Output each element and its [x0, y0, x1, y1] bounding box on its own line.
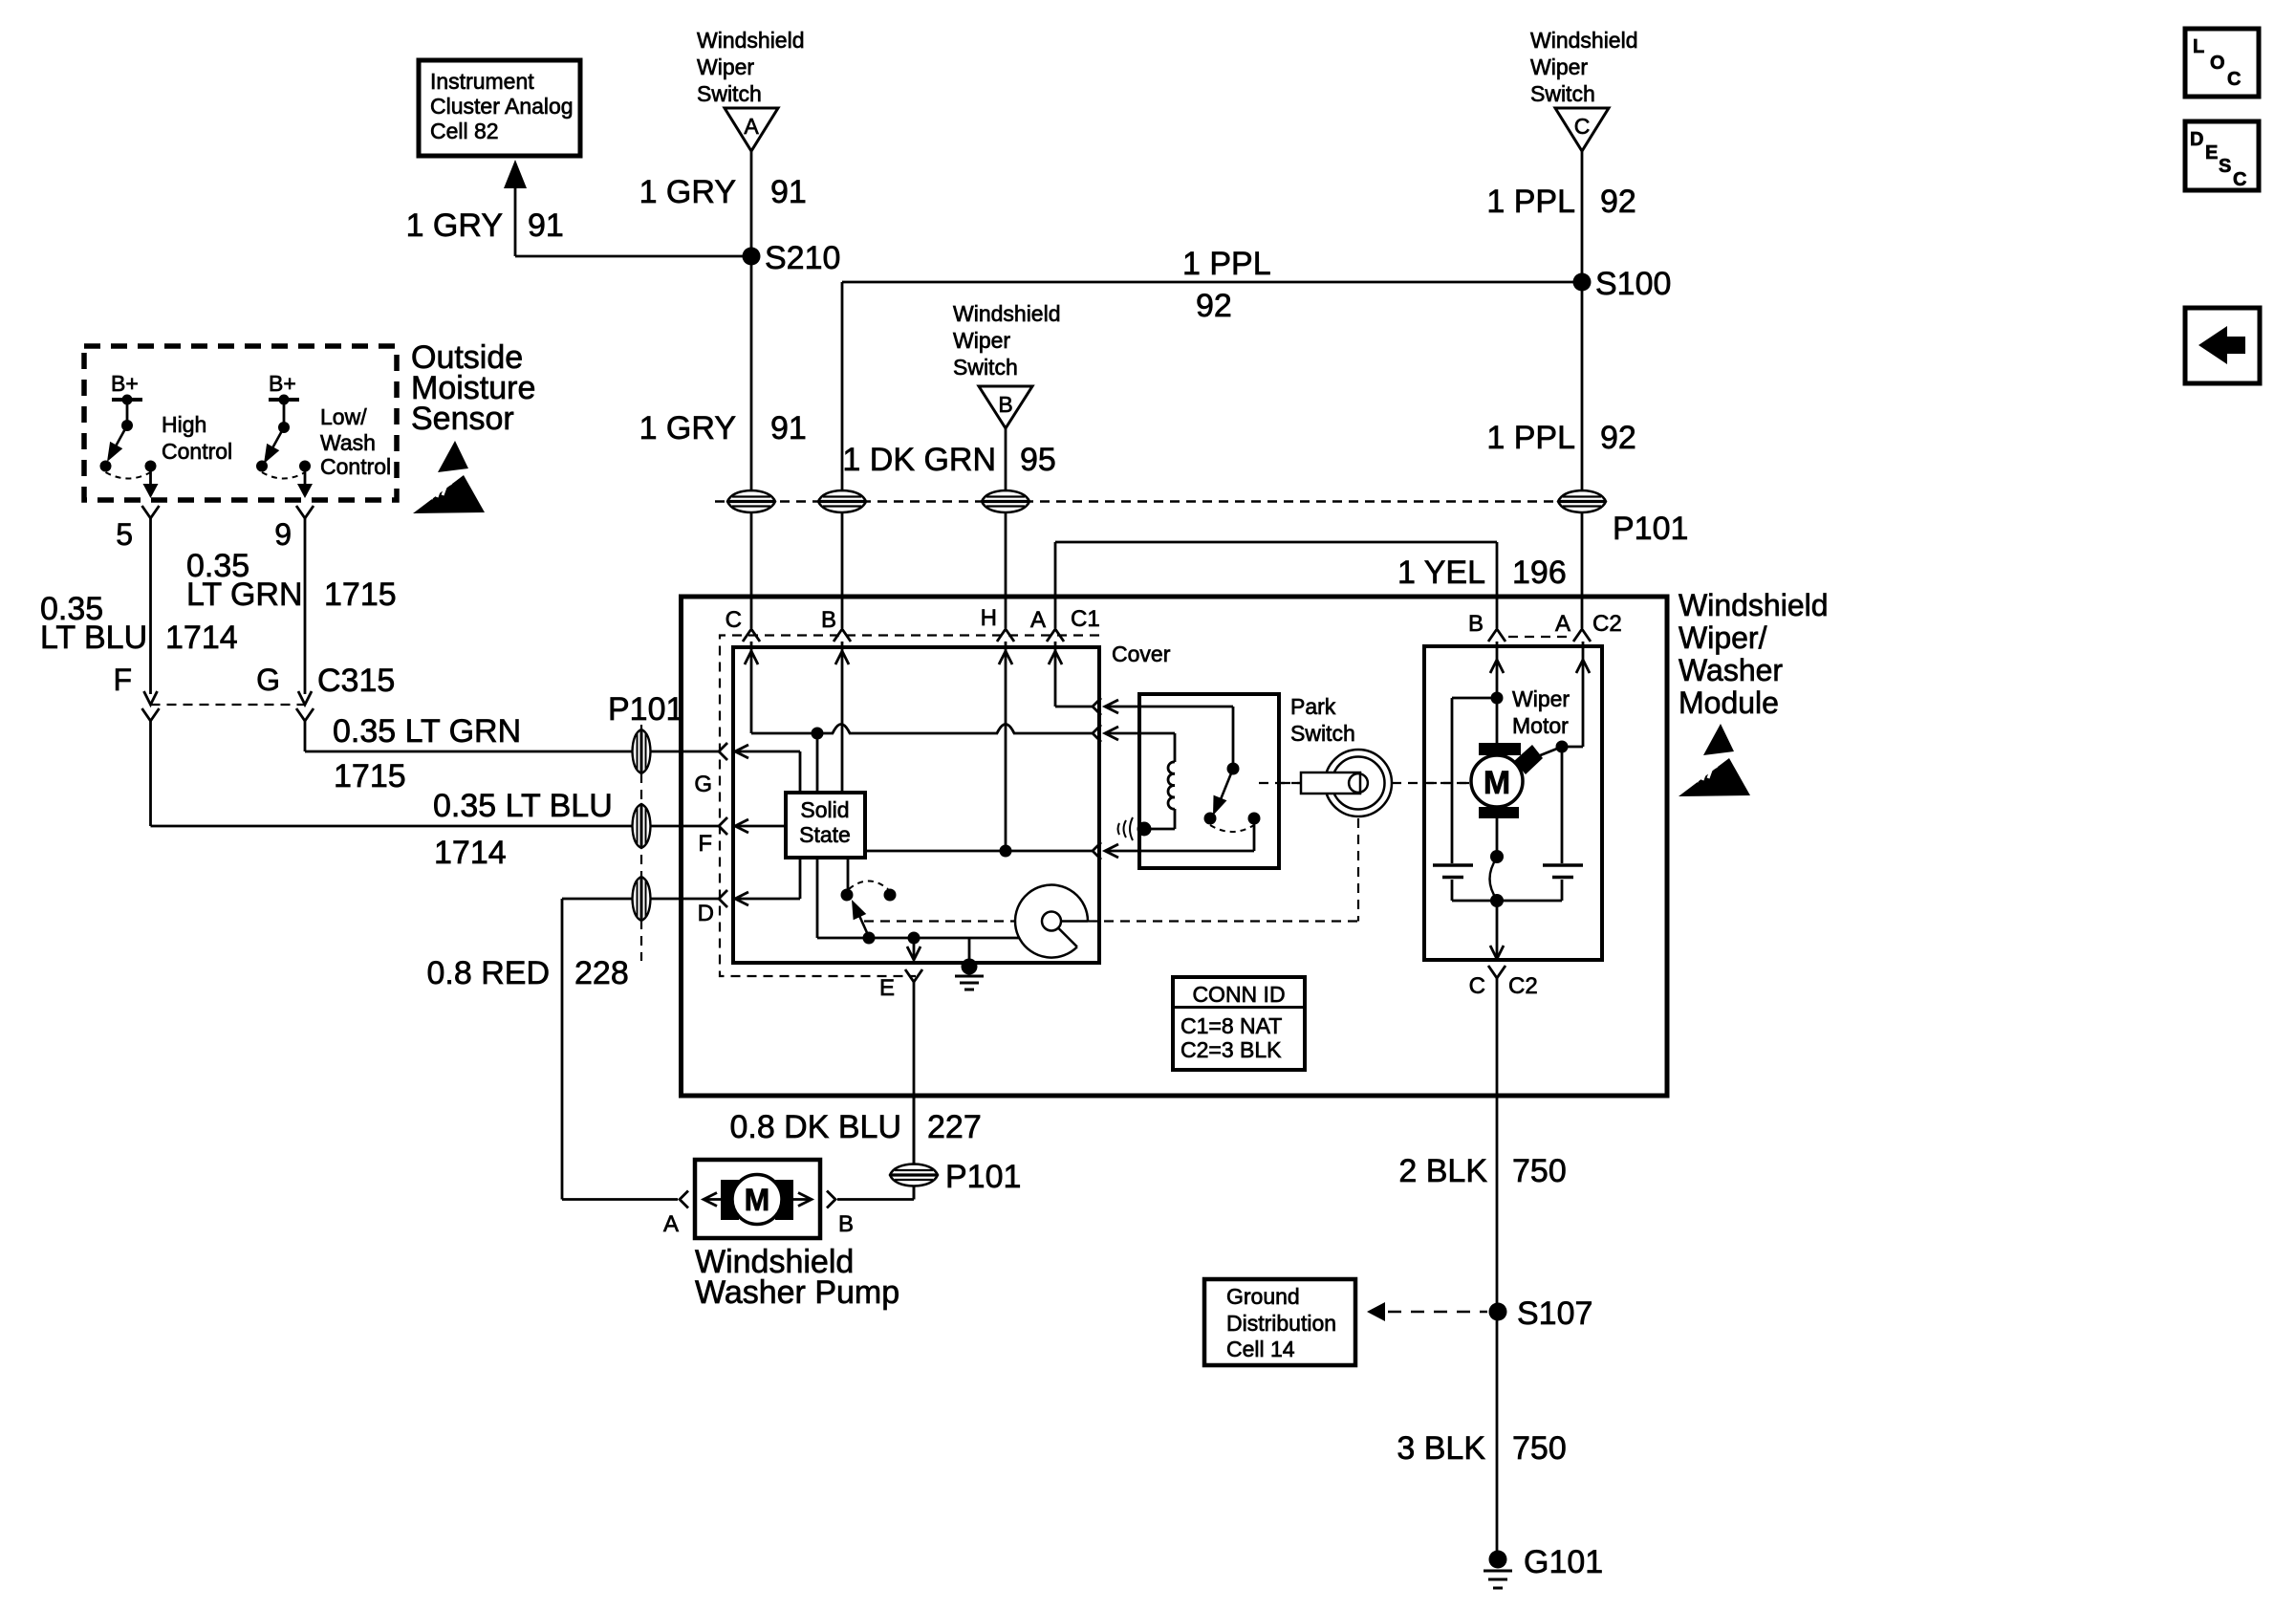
- svg-text:G: G: [694, 772, 712, 797]
- svg-text:Cluster Analog: Cluster Analog: [430, 94, 574, 119]
- svg-text:91: 91: [770, 174, 807, 210]
- svg-text:92: 92: [1600, 420, 1636, 456]
- svg-text:Motor: Motor: [1512, 713, 1569, 738]
- svg-text:P101: P101: [945, 1159, 1021, 1195]
- svg-text:Switch: Switch: [1290, 721, 1355, 746]
- svg-text:C2=3 BLK: C2=3 BLK: [1180, 1037, 1282, 1062]
- svg-text:S100: S100: [1595, 266, 1671, 302]
- svg-text:S210: S210: [765, 240, 840, 276]
- svg-text:5: 5: [116, 517, 133, 552]
- svg-text:Wiper: Wiper: [953, 328, 1010, 353]
- svg-text:F: F: [113, 663, 132, 697]
- svg-text:C2: C2: [1508, 973, 1538, 999]
- svg-text:E: E: [2205, 142, 2218, 163]
- svg-text:Control: Control: [320, 454, 391, 479]
- svg-text:Low/: Low/: [320, 404, 367, 429]
- svg-text:1715: 1715: [324, 577, 397, 613]
- svg-text:1 PPL: 1 PPL: [1182, 246, 1271, 282]
- svg-text:C1=8 NAT: C1=8 NAT: [1180, 1013, 1282, 1038]
- svg-text:LT GRN: LT GRN: [186, 577, 303, 613]
- svg-text:Washer: Washer: [1679, 653, 1783, 687]
- svg-text:Switch: Switch: [1530, 81, 1595, 106]
- svg-text:91: 91: [770, 410, 807, 446]
- svg-text:A: A: [663, 1211, 679, 1237]
- svg-text:A: A: [744, 114, 759, 139]
- svg-text:Solid: Solid: [800, 797, 849, 822]
- svg-text:B: B: [838, 1211, 854, 1237]
- svg-text:D: D: [698, 901, 714, 926]
- svg-text:91: 91: [528, 207, 564, 244]
- svg-text:0.8 DK BLU: 0.8 DK BLU: [729, 1109, 901, 1145]
- svg-text:B+: B+: [269, 371, 296, 396]
- svg-text:1714: 1714: [165, 620, 238, 656]
- svg-text:C2: C2: [1592, 611, 1622, 637]
- svg-text:A: A: [1030, 607, 1046, 633]
- svg-text:C: C: [2227, 69, 2241, 90]
- svg-text:S: S: [2219, 156, 2231, 177]
- svg-text:Module: Module: [1679, 685, 1779, 720]
- svg-text:C: C: [1469, 973, 1485, 999]
- svg-text:0.8 RED: 0.8 RED: [427, 955, 551, 991]
- svg-text:Wiper/: Wiper/: [1679, 620, 1767, 655]
- svg-text:0.35 LT BLU: 0.35 LT BLU: [433, 788, 613, 824]
- svg-text:0.35 LT GRN: 0.35 LT GRN: [333, 713, 521, 750]
- svg-text:P101: P101: [1613, 511, 1688, 547]
- svg-text:F: F: [698, 831, 712, 857]
- svg-text:1714: 1714: [434, 835, 507, 871]
- svg-text:C: C: [726, 607, 742, 633]
- svg-text:B: B: [821, 607, 836, 633]
- svg-text:Cell 82: Cell 82: [430, 119, 499, 143]
- svg-text:92: 92: [1600, 184, 1636, 220]
- svg-text:Wiper: Wiper: [1512, 686, 1570, 711]
- svg-text:P101: P101: [608, 691, 683, 728]
- svg-text:750: 750: [1512, 1430, 1567, 1467]
- svg-text:L: L: [2193, 36, 2204, 57]
- svg-text:1 PPL: 1 PPL: [1486, 184, 1575, 220]
- svg-text:High: High: [162, 412, 206, 437]
- svg-text:G101: G101: [1524, 1544, 1603, 1580]
- svg-text:C: C: [1574, 114, 1591, 139]
- svg-text:2 BLK: 2 BLK: [1398, 1153, 1487, 1189]
- svg-text:Cover: Cover: [1112, 642, 1171, 666]
- svg-text:1 GRY: 1 GRY: [639, 174, 736, 210]
- svg-text:Wiper: Wiper: [697, 54, 754, 79]
- svg-text:Switch: Switch: [697, 81, 762, 106]
- svg-text:9: 9: [274, 517, 292, 552]
- svg-text:E: E: [879, 975, 895, 1001]
- svg-text:O: O: [2210, 53, 2225, 74]
- svg-text:92: 92: [1196, 288, 1232, 324]
- svg-text:State: State: [799, 822, 851, 847]
- svg-text:C1: C1: [1071, 606, 1100, 632]
- svg-text:A: A: [1555, 611, 1570, 637]
- svg-text:CONN ID: CONN ID: [1192, 982, 1285, 1007]
- svg-text:750: 750: [1512, 1153, 1567, 1189]
- svg-text:Sensor: Sensor: [411, 401, 514, 437]
- svg-text:196: 196: [1512, 555, 1567, 591]
- svg-text:G: G: [256, 663, 280, 697]
- svg-text:3 BLK: 3 BLK: [1397, 1430, 1485, 1467]
- svg-text:D: D: [2190, 129, 2203, 150]
- svg-text:1 YEL: 1 YEL: [1397, 555, 1485, 591]
- svg-text:Distribution: Distribution: [1226, 1311, 1336, 1336]
- svg-text:M: M: [1484, 765, 1510, 801]
- svg-text:Wiper: Wiper: [1530, 54, 1588, 79]
- svg-text:95: 95: [1020, 442, 1056, 478]
- svg-text:B: B: [1468, 611, 1484, 637]
- svg-text:1 PPL: 1 PPL: [1486, 420, 1575, 456]
- svg-text:Wash: Wash: [320, 430, 376, 455]
- svg-text:1 GRY: 1 GRY: [639, 410, 736, 446]
- svg-text:228: 228: [574, 955, 629, 991]
- svg-text:Park: Park: [1290, 694, 1336, 719]
- svg-text:Windshield: Windshield: [1530, 28, 1638, 53]
- svg-text:1 DK GRN: 1 DK GRN: [842, 442, 996, 478]
- svg-text:C: C: [2233, 169, 2246, 190]
- svg-text:Ground: Ground: [1226, 1284, 1300, 1309]
- svg-text:C315: C315: [317, 663, 395, 699]
- svg-text:M: M: [745, 1183, 770, 1217]
- svg-text:Instrument: Instrument: [430, 69, 534, 94]
- svg-text:Windshield: Windshield: [697, 28, 805, 53]
- svg-text:B: B: [998, 392, 1012, 417]
- svg-text:1 GRY: 1 GRY: [406, 207, 503, 244]
- svg-text:S107: S107: [1517, 1295, 1592, 1332]
- svg-text:LT BLU: LT BLU: [40, 620, 147, 656]
- svg-text:Cell 14: Cell 14: [1226, 1337, 1295, 1361]
- svg-text:Switch: Switch: [953, 355, 1018, 380]
- svg-text:227: 227: [927, 1109, 982, 1145]
- svg-text:Control: Control: [162, 439, 232, 464]
- svg-text:Windshield: Windshield: [953, 301, 1061, 326]
- svg-text:H: H: [981, 605, 997, 631]
- svg-text:Windshield: Windshield: [1679, 588, 1829, 622]
- svg-text:Washer Pump: Washer Pump: [695, 1274, 899, 1311]
- svg-text:1715: 1715: [334, 758, 406, 794]
- svg-text:B+: B+: [111, 371, 139, 396]
